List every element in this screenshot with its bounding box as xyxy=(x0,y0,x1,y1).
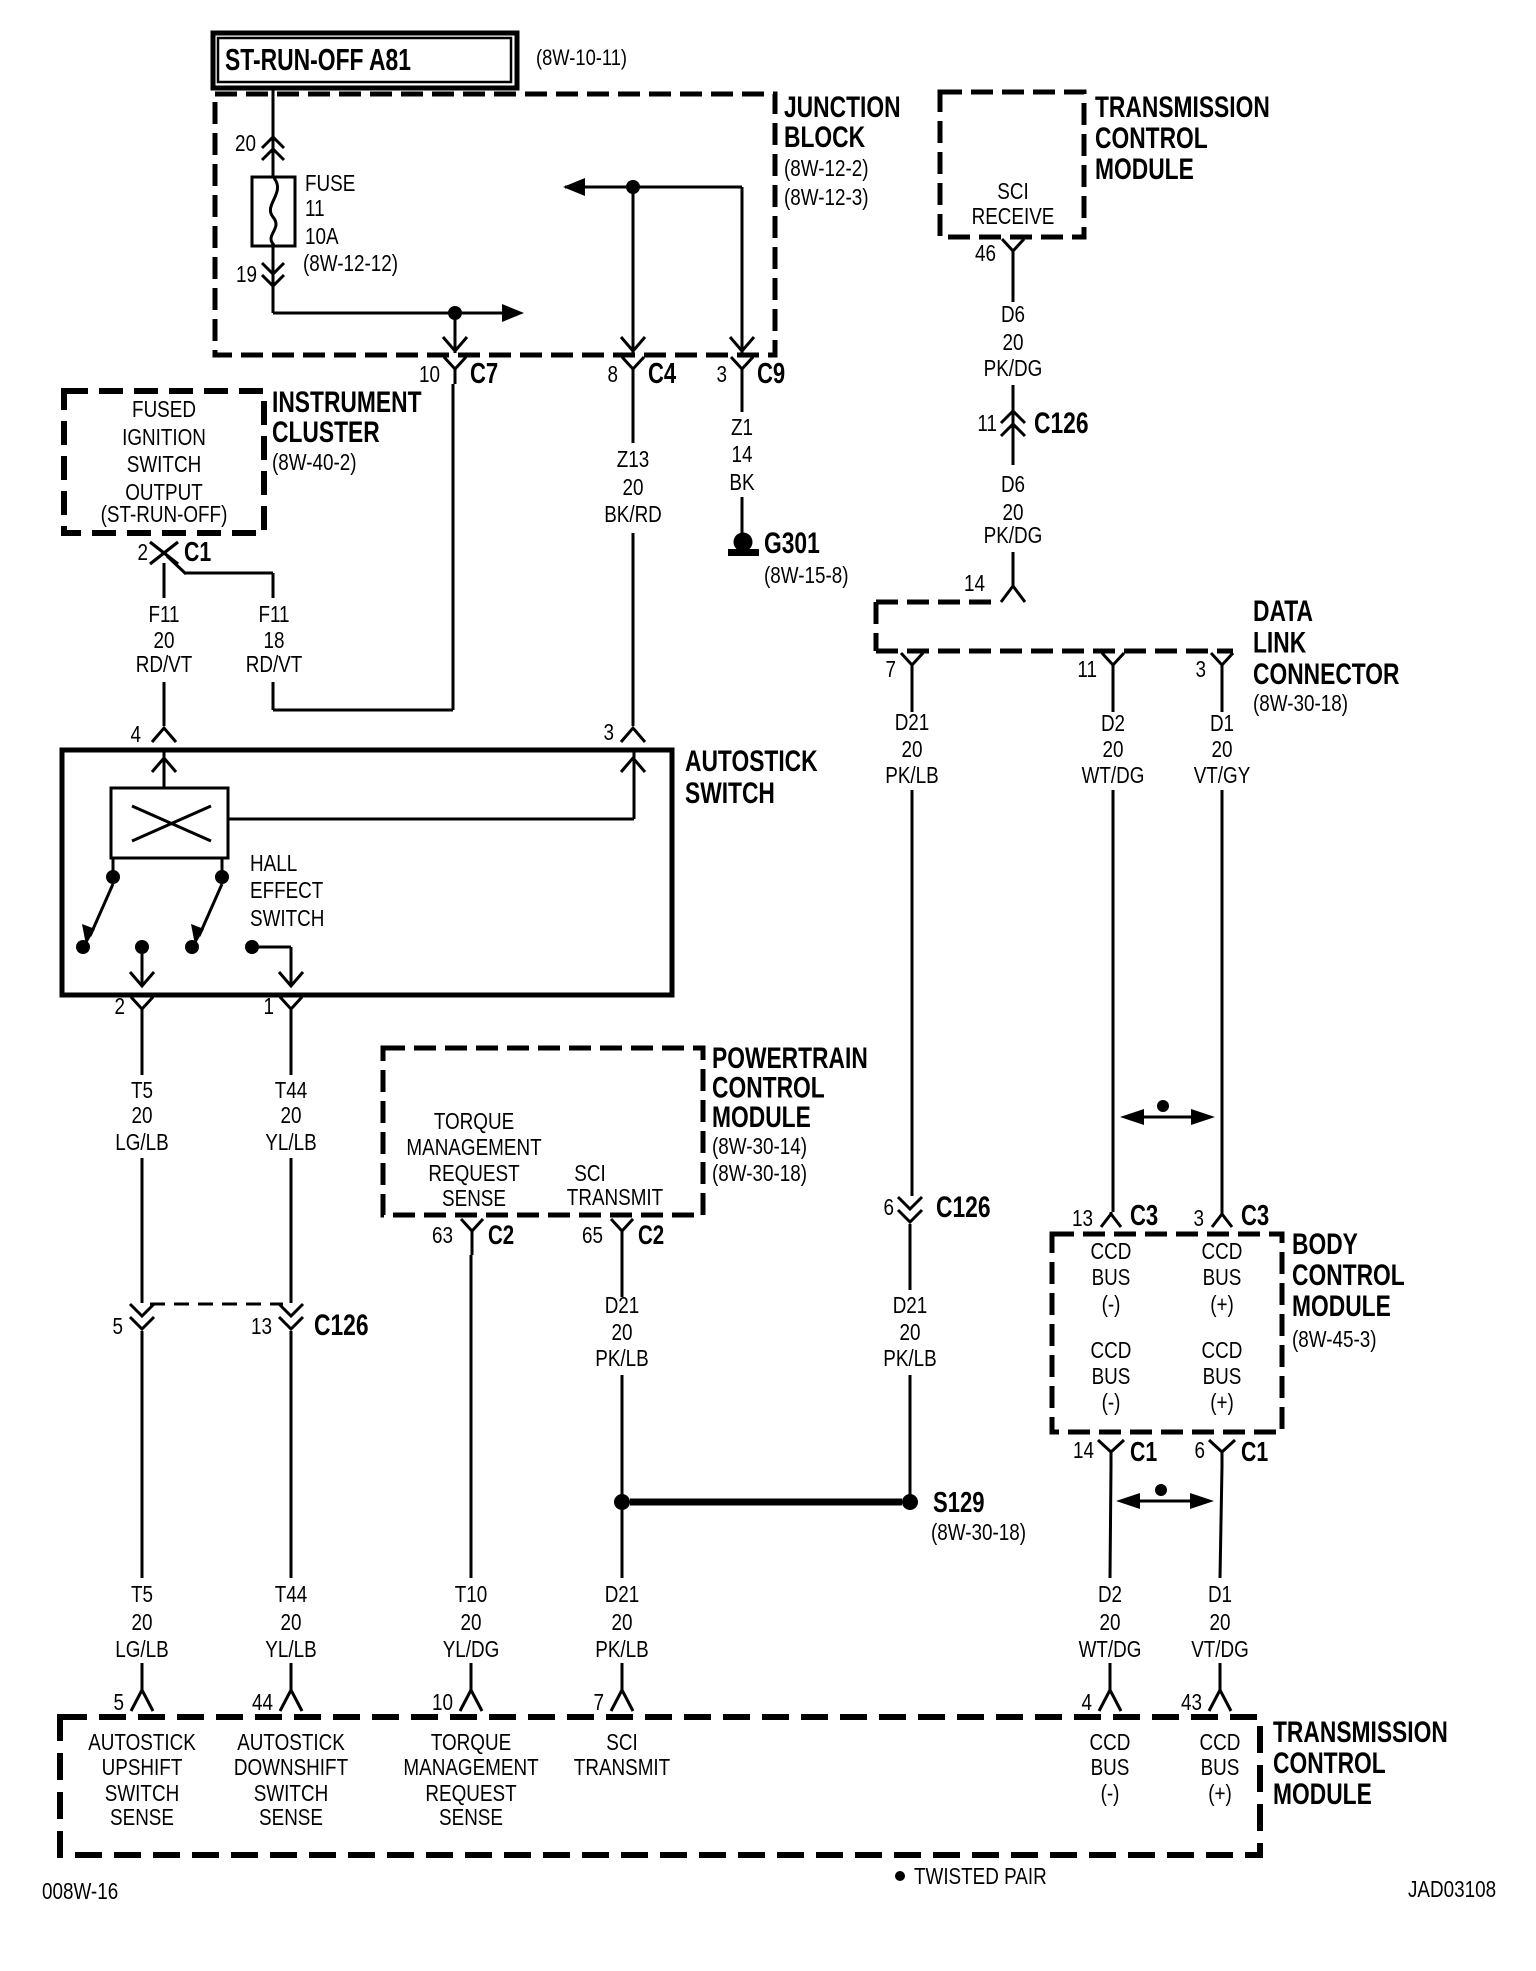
svg-text:MODULE: MODULE xyxy=(712,1101,811,1134)
svg-text:T5: T5 xyxy=(131,1077,153,1103)
svg-text:PK/LB: PK/LB xyxy=(885,762,939,788)
svg-text:5: 5 xyxy=(113,1313,124,1339)
svg-text:BUS: BUS xyxy=(1203,1363,1242,1389)
svg-text:2: 2 xyxy=(138,539,149,565)
svg-text:POWERTRAIN: POWERTRAIN xyxy=(712,1042,868,1075)
svg-text:10: 10 xyxy=(432,1689,453,1715)
svg-text:RD/VT: RD/VT xyxy=(136,651,193,677)
svg-text:HALL: HALL xyxy=(250,850,297,876)
svg-text:11: 11 xyxy=(977,410,997,436)
svg-text:(8W-12-12): (8W-12-12) xyxy=(303,250,398,276)
svg-text:3: 3 xyxy=(604,719,615,745)
svg-text:PK/LB: PK/LB xyxy=(883,1345,937,1371)
svg-text:20: 20 xyxy=(1100,1609,1121,1635)
svg-text:SWITCH: SWITCH xyxy=(685,777,775,810)
svg-text:CCD: CCD xyxy=(1200,1729,1241,1755)
svg-text:PK/DG: PK/DG xyxy=(984,522,1043,548)
svg-text:REQUEST: REQUEST xyxy=(428,1160,519,1186)
svg-text:AUTOSTICK: AUTOSTICK xyxy=(685,745,818,778)
svg-text:20: 20 xyxy=(1003,329,1024,355)
svg-text:D6: D6 xyxy=(1001,471,1025,497)
svg-text:WT/DG: WT/DG xyxy=(1079,1636,1142,1662)
svg-text:CCD: CCD xyxy=(1091,1238,1132,1264)
svg-text:65: 65 xyxy=(582,1222,603,1248)
svg-text:SWITCH: SWITCH xyxy=(254,1780,328,1806)
svg-text:LINK: LINK xyxy=(1253,627,1306,660)
svg-text:D2: D2 xyxy=(1098,1581,1122,1607)
svg-text:TRANSMIT: TRANSMIT xyxy=(567,1184,663,1210)
svg-text:20: 20 xyxy=(132,1609,153,1635)
svg-text:Z13: Z13 xyxy=(617,446,650,472)
svg-text:G301: G301 xyxy=(764,527,820,560)
svg-text:T10: T10 xyxy=(455,1581,488,1607)
svg-text:BLOCK: BLOCK xyxy=(784,121,865,154)
svg-text:20: 20 xyxy=(623,474,644,500)
svg-text:BODY: BODY xyxy=(1292,1228,1358,1261)
svg-text:(8W-12-3): (8W-12-3) xyxy=(784,184,869,210)
svg-text:20: 20 xyxy=(132,1102,153,1128)
svg-text:SWITCH: SWITCH xyxy=(250,905,324,931)
svg-text:IGNITION: IGNITION xyxy=(122,424,206,450)
svg-text:TRANSMISSION: TRANSMISSION xyxy=(1095,91,1270,124)
svg-text:10: 10 xyxy=(419,361,440,387)
svg-text:BUS: BUS xyxy=(1203,1264,1242,1290)
svg-text:C2: C2 xyxy=(638,1220,664,1250)
svg-text:EFFECT: EFFECT xyxy=(250,877,323,903)
svg-text:7: 7 xyxy=(594,1689,605,1715)
svg-text:14: 14 xyxy=(1073,1437,1094,1463)
svg-text:20: 20 xyxy=(612,1609,633,1635)
svg-text:C1: C1 xyxy=(184,536,211,567)
svg-text:CCD: CCD xyxy=(1202,1238,1243,1264)
svg-text:C1: C1 xyxy=(1130,1436,1157,1467)
svg-text:DOWNSHIFT: DOWNSHIFT xyxy=(234,1754,348,1780)
svg-text:FUSED: FUSED xyxy=(132,396,196,422)
svg-text:C126: C126 xyxy=(314,1309,369,1342)
svg-text:SCI: SCI xyxy=(997,178,1028,204)
svg-text:D21: D21 xyxy=(895,709,930,735)
svg-text:D1: D1 xyxy=(1208,1581,1232,1607)
svg-text:20: 20 xyxy=(1103,736,1124,762)
svg-text:D21: D21 xyxy=(605,1292,640,1318)
svg-text:19: 19 xyxy=(236,261,257,287)
svg-text:(ST-RUN-OFF): (ST-RUN-OFF) xyxy=(101,501,228,527)
svg-text:MANAGEMENT: MANAGEMENT xyxy=(406,1134,541,1160)
svg-text:008W-16: 008W-16 xyxy=(42,1878,118,1904)
svg-text:4: 4 xyxy=(1082,1689,1093,1715)
svg-text:10A: 10A xyxy=(305,223,339,249)
svg-text:CONTROL: CONTROL xyxy=(712,1072,825,1105)
svg-text:TWISTED PAIR: TWISTED PAIR xyxy=(914,1863,1047,1889)
svg-text:1: 1 xyxy=(264,993,275,1019)
svg-text:TRANSMIT: TRANSMIT xyxy=(574,1754,670,1780)
svg-text:4: 4 xyxy=(131,721,142,747)
svg-text:YL/LB: YL/LB xyxy=(265,1129,316,1155)
svg-text:CCD: CCD xyxy=(1090,1729,1131,1755)
svg-text:(8W-45-3): (8W-45-3) xyxy=(1292,1326,1377,1352)
svg-text:Z1: Z1 xyxy=(731,414,753,440)
svg-text:44: 44 xyxy=(252,1689,273,1715)
svg-text:BK/RD: BK/RD xyxy=(604,501,662,527)
svg-text:20: 20 xyxy=(281,1609,302,1635)
svg-text:8: 8 xyxy=(608,361,619,387)
svg-text:20: 20 xyxy=(1212,736,1233,762)
svg-text:BUS: BUS xyxy=(1092,1363,1131,1389)
svg-text:(8W-30-14): (8W-30-14) xyxy=(712,1133,807,1159)
svg-text:13: 13 xyxy=(1072,1205,1093,1231)
svg-text:CONTROL: CONTROL xyxy=(1292,1259,1405,1292)
svg-text:JAD03108: JAD03108 xyxy=(1408,1876,1496,1902)
svg-text:13: 13 xyxy=(251,1313,272,1339)
svg-text:63: 63 xyxy=(432,1222,453,1248)
svg-text:PK/LB: PK/LB xyxy=(595,1636,649,1662)
svg-text:PK/LB: PK/LB xyxy=(595,1345,649,1371)
svg-text:2: 2 xyxy=(115,993,126,1019)
svg-text:TORQUE: TORQUE xyxy=(431,1729,511,1755)
svg-text:CCD: CCD xyxy=(1202,1337,1243,1363)
svg-text:PK/DG: PK/DG xyxy=(984,355,1043,381)
svg-text:SENSE: SENSE xyxy=(442,1185,506,1211)
svg-text:MODULE: MODULE xyxy=(1273,1778,1372,1811)
svg-text:BUS: BUS xyxy=(1092,1264,1131,1290)
svg-text:C4: C4 xyxy=(648,358,676,390)
svg-text:YL/DG: YL/DG xyxy=(443,1636,500,1662)
svg-text:CONNECTOR: CONNECTOR xyxy=(1253,658,1400,691)
svg-text:VT/GY: VT/GY xyxy=(1194,762,1251,788)
svg-text:T44: T44 xyxy=(275,1077,308,1103)
svg-text:C7: C7 xyxy=(470,358,498,390)
svg-text:(+): (+) xyxy=(1208,1780,1232,1806)
svg-text:D6: D6 xyxy=(1001,301,1025,327)
svg-text:20: 20 xyxy=(902,736,923,762)
svg-text:3: 3 xyxy=(1194,1205,1205,1231)
svg-text:46: 46 xyxy=(975,240,996,266)
svg-text:6: 6 xyxy=(884,1194,895,1220)
svg-text:LG/LB: LG/LB xyxy=(115,1129,169,1155)
svg-text:SENSE: SENSE xyxy=(439,1804,503,1830)
svg-text:5: 5 xyxy=(114,1689,125,1715)
svg-text:6: 6 xyxy=(1195,1437,1206,1463)
svg-text:(8W-40-2): (8W-40-2) xyxy=(272,449,357,475)
svg-text:CLUSTER: CLUSTER xyxy=(272,416,380,449)
svg-text:S129: S129 xyxy=(933,1487,985,1519)
svg-text:20: 20 xyxy=(612,1319,633,1345)
svg-text:WT/DG: WT/DG xyxy=(1082,762,1145,788)
svg-text:20: 20 xyxy=(1210,1609,1231,1635)
svg-text:RD/VT: RD/VT xyxy=(246,651,303,677)
svg-text:C9: C9 xyxy=(757,358,785,390)
svg-text:20: 20 xyxy=(281,1102,302,1128)
svg-text:ST-RUN-OFF A81: ST-RUN-OFF A81 xyxy=(225,42,411,77)
svg-text:(+): (+) xyxy=(1210,1291,1234,1317)
svg-text:SENSE: SENSE xyxy=(110,1804,174,1830)
svg-text:T44: T44 xyxy=(275,1581,308,1607)
svg-text:REQUEST: REQUEST xyxy=(425,1780,516,1806)
svg-text:11: 11 xyxy=(305,195,325,221)
svg-text:(-): (-) xyxy=(1102,1291,1121,1317)
svg-text:3: 3 xyxy=(1196,656,1207,682)
svg-text:14: 14 xyxy=(964,570,985,596)
svg-text:YL/LB: YL/LB xyxy=(265,1636,316,1662)
svg-text:VT/DG: VT/DG xyxy=(1191,1636,1249,1662)
svg-text:D1: D1 xyxy=(1210,710,1234,736)
svg-text:T5: T5 xyxy=(131,1581,153,1607)
svg-text:SCI: SCI xyxy=(606,1729,637,1755)
svg-text:CONTROL: CONTROL xyxy=(1273,1747,1386,1780)
svg-text:3: 3 xyxy=(717,361,728,387)
svg-text:D2: D2 xyxy=(1101,710,1125,736)
svg-text:MODULE: MODULE xyxy=(1095,153,1194,186)
svg-text:BUS: BUS xyxy=(1091,1754,1130,1780)
svg-text:14: 14 xyxy=(732,441,753,467)
svg-text:TORQUE: TORQUE xyxy=(434,1108,514,1134)
svg-text:MANAGEMENT: MANAGEMENT xyxy=(403,1754,538,1780)
svg-text:20: 20 xyxy=(154,627,175,653)
svg-text:RECEIVE: RECEIVE xyxy=(972,203,1055,229)
svg-text:AUTOSTICK: AUTOSTICK xyxy=(88,1729,196,1755)
svg-text:SCI: SCI xyxy=(574,1160,605,1186)
svg-text:(+): (+) xyxy=(1210,1389,1234,1415)
svg-text:20: 20 xyxy=(900,1319,921,1345)
svg-text:D21: D21 xyxy=(893,1292,928,1318)
svg-text:JUNCTION: JUNCTION xyxy=(784,91,901,124)
svg-text:(8W-30-18): (8W-30-18) xyxy=(712,1160,807,1186)
svg-text:C3: C3 xyxy=(1130,1200,1158,1232)
svg-text:BUS: BUS xyxy=(1201,1754,1240,1780)
svg-text:UPSHIFT: UPSHIFT xyxy=(102,1754,183,1780)
svg-text:FUSE: FUSE xyxy=(305,170,355,196)
svg-text:(-): (-) xyxy=(1101,1780,1120,1806)
svg-text:43: 43 xyxy=(1181,1689,1202,1715)
svg-text:INSTRUMENT: INSTRUMENT xyxy=(272,386,422,419)
svg-text:BK: BK xyxy=(729,469,755,495)
svg-text:LG/LB: LG/LB xyxy=(115,1636,169,1662)
svg-text:SWITCH: SWITCH xyxy=(105,1780,179,1806)
svg-text:AUTOSTICK: AUTOSTICK xyxy=(237,1729,345,1755)
svg-text:SWITCH: SWITCH xyxy=(127,451,201,477)
svg-text:CONTROL: CONTROL xyxy=(1095,122,1208,155)
svg-text:(8W-30-18): (8W-30-18) xyxy=(931,1519,1026,1545)
svg-text:C126: C126 xyxy=(1034,407,1089,440)
svg-text:(8W-12-2): (8W-12-2) xyxy=(784,155,869,181)
svg-text:F11: F11 xyxy=(258,601,289,627)
svg-text:20: 20 xyxy=(235,130,256,156)
svg-text:7: 7 xyxy=(886,656,897,682)
svg-text:(8W-10-11): (8W-10-11) xyxy=(536,45,627,70)
svg-text:(8W-30-18): (8W-30-18) xyxy=(1253,690,1348,716)
svg-text:MODULE: MODULE xyxy=(1292,1290,1391,1323)
svg-text:TRANSMISSION: TRANSMISSION xyxy=(1273,1716,1448,1749)
svg-text:20: 20 xyxy=(461,1609,482,1635)
svg-text:F11: F11 xyxy=(148,601,179,627)
svg-text:C2: C2 xyxy=(488,1220,514,1250)
svg-text:(8W-15-8): (8W-15-8) xyxy=(764,562,849,588)
svg-text:CCD: CCD xyxy=(1091,1337,1132,1363)
svg-text:C1: C1 xyxy=(1241,1436,1268,1467)
svg-text:C126: C126 xyxy=(936,1191,991,1224)
svg-text:C3: C3 xyxy=(1241,1200,1269,1232)
svg-text:DATA: DATA xyxy=(1253,595,1313,628)
svg-text:18: 18 xyxy=(264,627,285,653)
svg-text:11: 11 xyxy=(1077,656,1097,682)
svg-text:SENSE: SENSE xyxy=(259,1804,323,1830)
svg-text:D21: D21 xyxy=(605,1581,640,1607)
svg-text:(-): (-) xyxy=(1102,1389,1121,1415)
